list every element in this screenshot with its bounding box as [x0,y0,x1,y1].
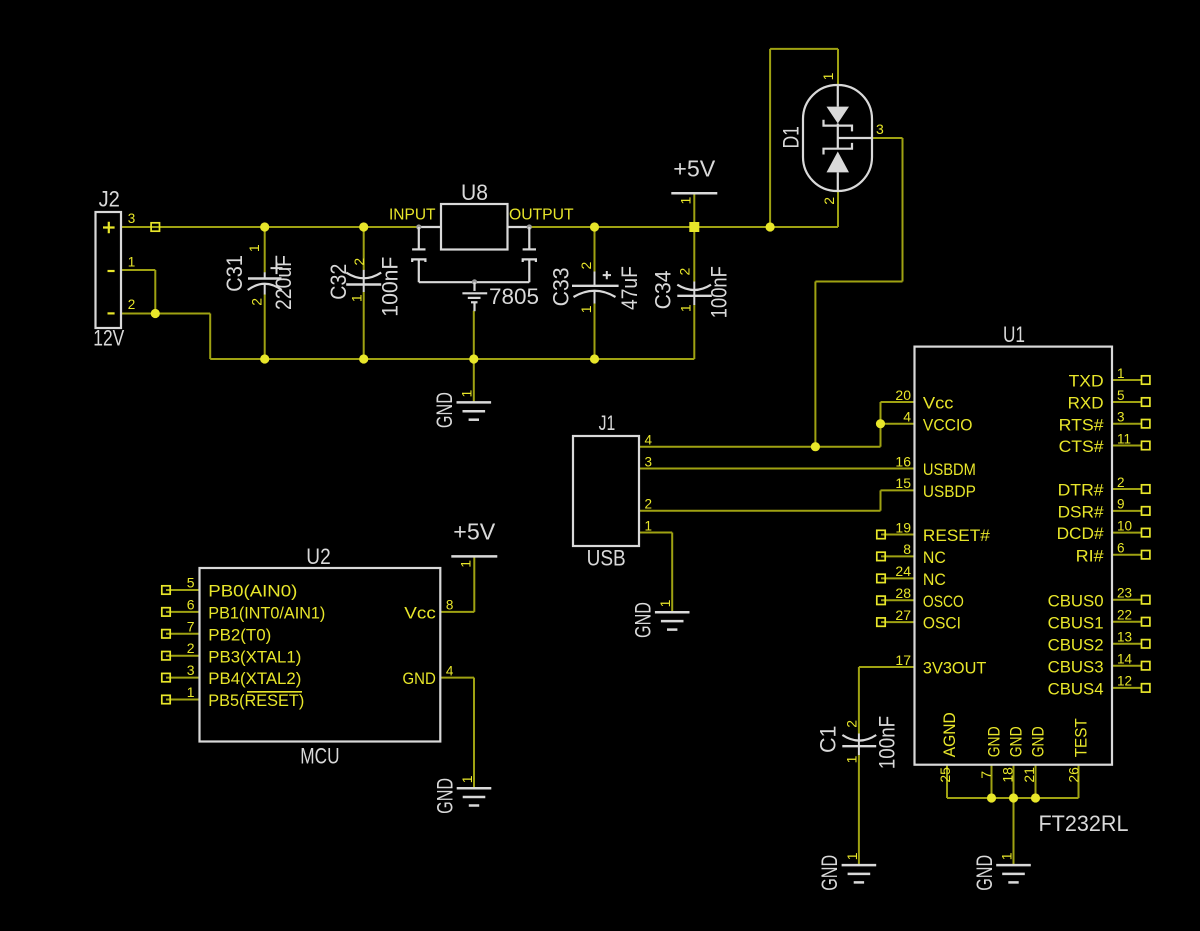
square U1 pin 3 [1142,420,1150,428]
svg-text:1: 1 [578,305,594,313]
C1 pin stubs [858,734,860,756]
wire C32 bottom [363,292,365,359]
svg-text:OSCI: OSCI [923,614,961,633]
pin U1-17 3V3OUT stub [859,666,915,668]
svg-text:1: 1 [246,244,262,252]
svg-text:PB1(INT0/AIN1): PB1(INT0/AIN1) [208,604,325,623]
svg-text:1: 1 [187,684,195,700]
square U1 pin 27 [877,618,885,626]
capacitor C31 plate [248,277,282,279]
svg-text:DCD#: DCD# [1057,524,1105,543]
square U2 left pin 5 [162,695,170,703]
U8 right decor drop 2 [528,259,530,282]
pin U1-6 RI# stub [1112,554,1142,556]
svg-text:PB3(XTAL1): PB3(XTAL1) [208,647,301,666]
capacitor C1 plate [842,745,876,747]
svg-text:RESET#: RESET# [923,526,991,545]
svg-text:3V3OUT: 3V3OUT [923,659,987,678]
svg-text:4: 4 [645,433,653,448]
svg-text:5: 5 [1117,388,1125,403]
regulator U8 body [441,204,508,250]
wire C32 top [363,227,365,270]
wire D1 pin3 across left [815,281,902,283]
wire U2 GND pin [440,677,474,679]
svg-text:TEST: TEST [1071,718,1090,757]
capacitor C33 curved plate [574,291,616,297]
wire U1 GND drop [1013,798,1015,865]
junction U1 GND bus 3 [1031,793,1040,802]
wire 3V3OUT down to C1 [858,667,860,734]
wire +5V rail from U8 OUTPUT to D1 pin2 [529,226,838,228]
svg-text:NC: NC [923,548,946,567]
C33 plus mark [603,271,611,279]
svg-text:15: 15 [895,475,911,491]
svg-text:1: 1 [843,755,859,763]
svg-text:OUTPUT: OUTPUT [509,207,574,224]
square U1 pin 11 [1142,441,1150,449]
junction C31 top [260,222,269,231]
svg-text:CBUS4: CBUS4 [1048,680,1104,699]
D1 top lead [837,85,839,107]
svg-text:1: 1 [657,599,673,607]
wire J1 pin1 stub [639,532,672,534]
wire U2 +5V riser [473,556,475,612]
svg-text:18: 18 [1000,767,1016,783]
svg-text:TXD: TXD [1069,372,1104,391]
svg-text:2: 2 [187,640,195,656]
pin U1-11 CTS# stub [1112,445,1142,447]
wire J1 pin2 across [639,510,881,512]
capacitor C34 plate [677,295,712,297]
svg-text:AGND: AGND [940,712,959,757]
J2 plus mark [103,222,115,234]
wire 12V+ rail from J2 pin3 to U8 INPUT [121,226,419,228]
svg-text:14: 14 [1117,652,1133,667]
D1 pin3 lead [838,137,872,139]
svg-text:2: 2 [128,297,136,312]
ground under U2 [457,787,492,790]
svg-text:DSR#: DSR# [1058,503,1105,522]
svg-text:21: 21 [1021,767,1037,783]
wire C31 top [264,227,266,272]
U8 gnd bar3 [471,301,478,303]
wire D1 pin3 down [902,138,904,282]
svg-text:C34: C34 [651,270,676,309]
pin U1-14 CBUS3 stub [1112,665,1142,667]
svg-text:3: 3 [645,455,653,470]
svg-text:GND: GND [817,855,842,891]
capacitor C33 plate [572,285,619,287]
svg-text:4: 4 [903,409,911,425]
svg-text:PB4(XTAL2): PB4(XTAL2) [208,669,301,688]
square U1 pin 14 [1142,662,1150,670]
svg-text:220uF: 220uF [271,255,296,310]
svg-text:2: 2 [645,497,653,512]
pin U1-5 RXD stub [1112,401,1142,403]
junction C32 bottom [359,354,368,363]
svg-text:24: 24 [895,563,911,579]
connector J2 body [96,212,122,328]
svg-text:12: 12 [1117,674,1132,689]
svg-text:GND: GND [403,669,436,688]
D1 bottom diode triangle [827,152,850,173]
capacitor C31 curved plate [248,284,282,290]
svg-text:C33: C33 [548,267,573,306]
U2 RESET overline [247,691,302,693]
svg-text:1: 1 [998,852,1014,860]
pin U1-13 CBUS2 stub [1112,643,1142,645]
C33 pin stubs [594,272,596,304]
svg-text:U1: U1 [1003,322,1025,347]
U8 left decor drop [418,227,420,249]
D1 bottom lead [837,172,839,191]
junction VCC/J1 pin4 [811,442,820,451]
square U2 left pin 1 [162,608,170,616]
svg-text:7805: 7805 [489,284,539,309]
wire U1 ground bus [947,797,1079,799]
svg-text:6: 6 [1117,541,1125,556]
pin U1-18 GND stub [1013,765,1015,798]
svg-text:1: 1 [459,389,475,397]
square U2 left pin 3 [162,652,170,660]
svg-text:5: 5 [187,575,195,591]
junction C33 bottom [590,354,599,363]
wire U2 GND drop [473,678,475,788]
svg-text:USBDM: USBDM [923,460,976,479]
svg-text:PB5(RESET): PB5(RESET) [208,691,304,710]
svg-text:CBUS1: CBUS1 [1048,613,1104,632]
svg-text:Vcc: Vcc [923,394,954,413]
svg-text:RTS#: RTS# [1059,415,1105,434]
pin U1-1 TXD stub [1112,379,1142,381]
svg-text:CBUS0: CBUS0 [1048,591,1104,610]
wire C33 bottom [594,303,596,359]
wire J2 pin1 jog right [121,269,155,271]
svg-text:2: 2 [351,258,367,266]
svg-text:10: 10 [1117,518,1132,533]
ground under U1 [996,864,1031,867]
U8 left decor plate [412,248,425,250]
svg-text:23: 23 [1117,586,1132,601]
svg-text:19: 19 [895,519,911,535]
J2 minus mark pin1 [108,270,115,272]
svg-text:USBDP: USBDP [923,482,976,501]
junction U8 GND [469,354,478,363]
svg-text:28: 28 [895,585,911,601]
wire VCC branch down [814,282,816,447]
wire D1 top across [770,48,838,50]
square U1 pin 28 [877,596,885,604]
wire U2 Vcc to +5V [440,611,474,613]
capacitor C32 curved plate [346,273,381,279]
wire U8 GND to rail and GND symbol [473,311,475,402]
pin U1-27 OSCI stub [881,621,915,623]
square U1 pin 19 [877,530,885,538]
svg-text:8: 8 [903,541,911,557]
svg-text:C1: C1 [816,726,841,754]
svg-text:U2: U2 [306,544,330,569]
square U1 pin 13 [1142,640,1150,648]
svg-text:GND: GND [631,602,656,638]
svg-text:17: 17 [895,652,911,668]
pin U1-22 CBUS1 stub [1112,621,1142,623]
wire bottom GND rail [210,358,694,360]
J2 minus mark pin2 [108,312,115,314]
U8 right decor plate [523,248,536,250]
U8 input pin [419,226,441,228]
U8 output pin [508,226,530,228]
svg-text:2: 2 [578,261,594,269]
wire J2 pin2 to corner [121,313,210,315]
svg-text:26: 26 [1065,767,1081,783]
svg-text:100nF: 100nF [707,266,732,318]
square U2 left pin 0 [162,586,170,594]
svg-text:+5V: +5V [453,519,496,545]
capacitor C34 curved plate [677,285,711,290]
U8 gnd bar2 [468,297,481,299]
svg-text:9: 9 [1117,497,1125,512]
svg-text:VCCIO: VCCIO [923,415,973,434]
pin U2-3 stub [166,677,200,679]
ground under U8 [457,401,492,404]
pin U2-2 stub [166,655,200,657]
svg-text:GND: GND [432,392,457,428]
wire GND drop at x210 [209,314,211,360]
svg-text:3: 3 [1117,410,1125,425]
pin U1-25 AGND stub [946,765,948,798]
junction VCCIO [876,419,885,428]
svg-text:7: 7 [187,618,195,634]
connector J1 body [573,436,639,546]
svg-text:3: 3 [876,121,884,137]
svg-text:100nF: 100nF [875,716,900,769]
square U1 pin 12 [1142,684,1150,692]
junction C31 bottom [260,354,269,363]
svg-text:GND: GND [1006,726,1025,757]
pin U1-2 DTR# stub [1112,488,1142,490]
svg-text:+5V: +5V [673,155,716,181]
square U1 pin 5 [1142,398,1150,406]
square U1 pin 6 [1142,551,1150,559]
svg-text:25: 25 [937,767,953,783]
svg-text:16: 16 [895,453,911,469]
pin U1-23 CBUS0 stub [1112,599,1142,601]
svg-text:C31: C31 [222,255,247,292]
square U1 pin 9 [1142,507,1150,515]
square U1 pin 22 [1142,618,1150,626]
wire +5V symbol drop [693,193,695,227]
svg-text:3: 3 [128,211,136,226]
capacitor C32 plate [346,283,381,285]
svg-text:J2: J2 [99,186,120,211]
svg-text:2: 2 [677,267,693,275]
svg-text:FT232RL: FT232RL [1039,811,1129,836]
junction square +5V/C34 [689,222,699,232]
junction J2 pin1/pin2 [151,309,160,318]
diode D1 body [803,85,872,191]
svg-text:8: 8 [446,598,454,613]
svg-text:20: 20 [895,387,911,403]
square U2 left pin 4 [162,673,170,681]
svg-text:47uF: 47uF [617,266,642,310]
pin U1-7 GND stub [991,765,993,798]
wire D1 pin1 drop [837,49,839,85]
svg-text:1: 1 [677,304,693,312]
pin U1-4 VCCIO stub [881,423,915,425]
U8 gnd stub 2 [473,303,475,311]
D1 top zener bar [824,120,853,132]
pin U1-9 DSR# stub [1112,510,1142,512]
square U1 pin 2 [1142,485,1150,493]
svg-text:PB2(T0): PB2(T0) [208,625,271,644]
square J2 pin3 end [151,223,159,231]
power +5V near C34 [671,192,717,195]
svg-text:Vcc: Vcc [404,604,436,623]
svg-text:1: 1 [457,560,473,568]
svg-text:12V: 12V [93,325,124,350]
C31 pin stubs [264,272,266,294]
wire D1 pin2 drop [837,191,839,227]
pin U1-20 Vcc stub [881,401,915,403]
wire J1 GND drop [671,533,673,612]
svg-text:3: 3 [187,662,195,678]
svg-text:7: 7 [978,771,994,779]
wire D1 pin3 right [872,137,903,139]
pin U1-3 RTS# stub [1112,423,1142,425]
wire J2 pin1 down to pin2 net [154,270,156,314]
ground under C1 [842,864,877,867]
square U1 pin 1 [1142,376,1150,384]
wire C34 top [693,227,695,282]
svg-text:11: 11 [1117,431,1131,446]
square U1 pin 8 [877,552,885,560]
wire C1 bottom to GND [858,755,860,865]
svg-text:2: 2 [249,298,265,306]
svg-text:USB: USB [587,545,626,570]
svg-text:J1: J1 [599,412,616,435]
pin U1-21 GND stub [1035,765,1037,798]
svg-text:22: 22 [1117,608,1132,623]
U8 left decor drop 2 [418,259,420,282]
svg-text:1: 1 [459,775,475,783]
svg-text:RXD: RXD [1068,394,1104,413]
junction U1 GND bus 2 [1009,793,1018,802]
svg-text:1: 1 [645,519,653,534]
pin U2-5 stub [166,589,200,591]
svg-text:MCU: MCU [300,743,339,768]
U8 gnd bar1 [462,292,487,294]
C32 pin stubs [363,270,365,292]
IC U1 body [915,347,1113,765]
svg-text:U8: U8 [461,180,488,205]
svg-text:C32: C32 [326,264,351,300]
junction U1 GND bus 1 [987,793,996,802]
wire D1 branch up [769,49,771,227]
svg-text:27: 27 [895,607,911,623]
wire Vcc/VCCIO riser [880,402,882,447]
D1 center lead [837,124,839,149]
svg-text:DTR#: DTR# [1058,481,1105,500]
C34 pin stubs [693,282,695,306]
ground under J1 [655,611,690,614]
pin U1-8 NC stub [881,555,915,557]
pin U1-12 CBUS4 stub [1112,687,1142,689]
svg-text:1: 1 [677,196,693,204]
svg-text:2: 2 [821,197,837,205]
svg-text:INPUT: INPUT [389,207,436,224]
wire USBDM J1 pin3 to U1 pin16 [639,468,915,470]
pin U1-28 OSCO stub [881,599,915,601]
svg-text:OSCO: OSCO [923,592,964,611]
pin U2-6 stub [166,611,200,613]
svg-text:PB0(AIN0): PB0(AIN0) [208,582,297,601]
pin U2-7 stub [166,633,200,635]
U8 input pin dot [416,224,421,229]
wire C31 bottom [264,294,266,359]
square U1 pin 24 [877,574,885,582]
D1 bottom zener bar [824,143,853,155]
svg-text:1: 1 [128,255,136,270]
D1 top diode triangle [827,107,850,124]
svg-text:4: 4 [446,663,454,678]
svg-text:1: 1 [844,852,860,860]
pin U2-1 stub [166,699,200,701]
U8 gnd stub [473,282,475,291]
U8 right decor hook [523,259,536,262]
U8 gnd pin dot [472,279,477,284]
wire C34 bottom [693,305,695,359]
svg-text:13: 13 [1117,630,1132,645]
svg-text:RI#: RI# [1076,546,1105,565]
U8 right decor drop [528,227,530,249]
svg-text:D1: D1 [778,126,803,149]
svg-text:6: 6 [187,596,195,612]
junction D1 branch [766,222,775,231]
square U2 left pin 2 [162,630,170,638]
pin U1-19 RESET# stub [881,534,915,536]
svg-text:NC: NC [923,570,946,589]
square U1 pin 23 [1142,596,1150,604]
junction C32 top [359,222,368,231]
svg-text:2: 2 [1117,475,1125,490]
U8 left decor hook [412,259,425,262]
svg-text:CTS#: CTS# [1059,437,1105,456]
square U1 pin 10 [1142,528,1150,536]
svg-text:2: 2 [843,720,859,728]
pin U1-15 USBDP stub [881,489,915,491]
wire C33 top [594,227,596,272]
svg-text:CBUS2: CBUS2 [1048,635,1104,654]
svg-text:CBUS3: CBUS3 [1048,657,1104,676]
pin U1-26 TEST stub [1078,765,1080,798]
IC U2 body [200,568,441,742]
svg-text:1: 1 [348,294,364,302]
C31 plus mark [271,262,283,274]
U8 output pin dot [527,224,532,229]
U8 gnd bracket [419,281,530,283]
pin U1-24 NC stub [881,577,915,579]
svg-text:GND: GND [984,726,1003,757]
svg-text:1: 1 [1117,366,1125,381]
svg-text:GND: GND [432,778,457,814]
svg-text:GND: GND [1028,726,1047,757]
svg-text:GND: GND [972,855,997,891]
wire USBDP jog down [880,490,882,510]
svg-text:1: 1 [820,72,836,80]
power +5V near U2 [451,555,497,558]
wire J1 pin4 to U1 [639,446,881,448]
junction C33 top [590,222,599,231]
